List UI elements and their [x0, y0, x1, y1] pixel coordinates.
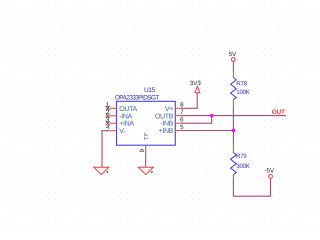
svg-text:300K: 300K [236, 163, 250, 170]
ground symbol G2 (pin 9) [138, 167, 153, 174]
pin 5 stub [175, 130, 182, 132]
svg-text:V-: V- [119, 128, 126, 135]
svg-text:V+: V+ [165, 106, 173, 113]
junction divider/+INB [232, 129, 235, 132]
wire OUT net [181, 115, 286, 117]
resistor R79 body [231, 153, 237, 175]
resistor R78 bottom lead [232, 100, 234, 108]
svg-text:9: 9 [139, 148, 146, 152]
pin 4 stub [109, 130, 116, 132]
svg-text:7: 7 [180, 109, 184, 116]
wire R79 to -5V [233, 180, 270, 197]
ground symbol G1 (pin 4) [94, 167, 109, 174]
power port 3V3 triangle [195, 86, 200, 92]
pin 6 stub [175, 122, 181, 124]
pin 1 stub [110, 107, 117, 109]
svg-text:TP: TP [144, 133, 150, 141]
pin 2 stub [110, 115, 117, 117]
junction OUT/feedback [210, 114, 213, 117]
svg-text:OUTA: OUTA [119, 106, 137, 113]
svg-text:5V: 5V [229, 51, 237, 58]
svg-text:+INA: +INA [119, 121, 134, 128]
wire pin4 to ground [102, 131, 109, 167]
svg-text:R79: R79 [236, 153, 247, 160]
svg-text:3V3: 3V3 [190, 80, 202, 87]
no-connect X pin 1 [106, 106, 110, 110]
svg-text:6: 6 [180, 117, 184, 124]
svg-text:R78: R78 [236, 80, 247, 87]
wire R78 to R79 [232, 107, 234, 145]
power port -5V stub [270, 179, 272, 182]
resistor R78 top lead [232, 71, 234, 77]
svg-text:100K: 100K [236, 89, 250, 96]
wire 5V to R78 [232, 64, 234, 72]
no-connect X pin 3 [106, 121, 110, 125]
resistor R78 body [231, 78, 237, 100]
svg-text:-5V: -5V [264, 167, 275, 174]
power port 5V circle [231, 58, 235, 62]
pin 7 stub [175, 115, 181, 117]
svg-text:OUT: OUT [272, 109, 285, 116]
svg-text:5: 5 [180, 124, 184, 131]
resistor R79 bottom lead [232, 175, 234, 180]
svg-text:OPA2333PIDSGT: OPA2333PIDSGT [115, 95, 160, 102]
pin 8 stub [175, 107, 181, 109]
wire pin8 to 3V3 [181, 93, 197, 109]
power port 5V stub [232, 62, 234, 65]
wire pin5 to divider [181, 130, 233, 132]
svg-text:-INB: -INB [160, 121, 173, 128]
svg-text:8: 8 [180, 102, 184, 109]
pin 9 stub [145, 145, 147, 151]
svg-text:U15: U15 [144, 87, 156, 94]
svg-text:+INB: +INB [159, 128, 174, 135]
wire pin9 to ground [145, 151, 147, 167]
wire pin6 feedback [181, 116, 212, 124]
svg-text:-INA: -INA [119, 113, 132, 120]
resistor R79 top lead [232, 145, 234, 153]
pin 3 stub [110, 122, 117, 124]
power port -5V circle [269, 175, 273, 179]
svg-text:OUTB: OUTB [155, 113, 174, 120]
op-amp U1 box [117, 101, 176, 145]
no-connect X pin 2 [106, 114, 110, 118]
